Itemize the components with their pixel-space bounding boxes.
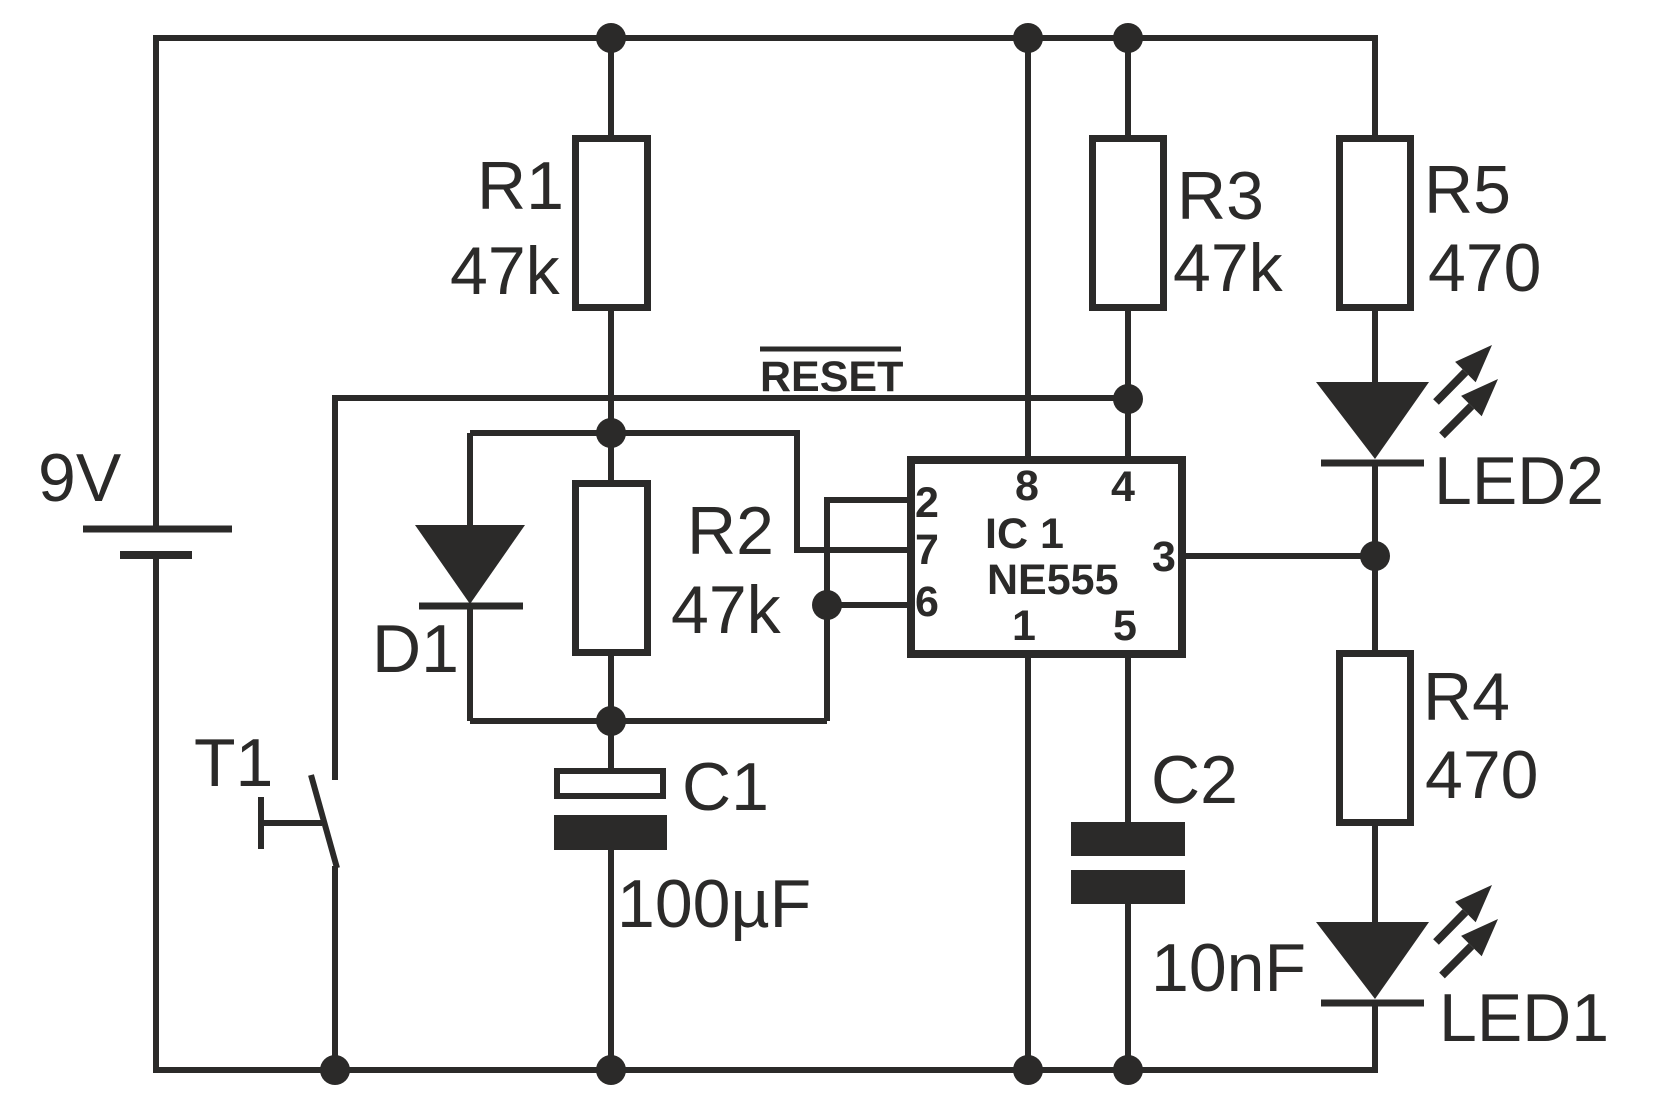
svg-text:T1: T1 bbox=[194, 725, 273, 801]
node pin1 bottom rail junction bbox=[1013, 1055, 1043, 1085]
node top rail R3 junction bbox=[1113, 23, 1143, 53]
svg-text:IC 1: IC 1 bbox=[985, 510, 1064, 558]
LED2 diode triangle bbox=[1316, 382, 1429, 459]
op-amp IC1 NE555 box bbox=[911, 460, 1182, 654]
svg-text:R5: R5 bbox=[1424, 152, 1511, 228]
capacitor C1 positive plate bbox=[557, 771, 663, 796]
node top rail pin8 junction bbox=[1013, 23, 1043, 53]
wire C2 bottom to rail bbox=[1125, 904, 1131, 1070]
capacitor C2 top plate bbox=[1071, 822, 1185, 856]
node pins 2-6 junction bbox=[812, 590, 842, 620]
battery 9V positive plate bbox=[83, 526, 232, 533]
LED1 light arrow 2 bbox=[1442, 919, 1498, 976]
resistor R1 bbox=[576, 139, 648, 308]
wire pin 1 to bottom rail bbox=[1025, 658, 1031, 1070]
svg-text:R4: R4 bbox=[1423, 659, 1510, 735]
wire R1 top bbox=[608, 38, 614, 140]
wire pin 8 from top rail bbox=[1025, 38, 1031, 456]
wire LED2 to pin3 node bbox=[1372, 463, 1378, 556]
node C2 bottom rail junction bbox=[1113, 1055, 1143, 1085]
wire R3 top bbox=[1125, 38, 1131, 140]
capacitor C1 negative plate bbox=[554, 815, 667, 850]
RESET overline bbox=[760, 347, 901, 352]
LED2 light arrow 1 bbox=[1436, 345, 1492, 402]
svg-text:470: 470 bbox=[1428, 230, 1541, 306]
svg-text:2: 2 bbox=[915, 479, 939, 527]
svg-text:R1: R1 bbox=[477, 148, 564, 224]
wire node across to pin7 riser bbox=[470, 433, 910, 550]
LED1 diode triangle bbox=[1316, 922, 1429, 999]
LED2 cathode bar bbox=[1321, 460, 1424, 467]
wire bottom node row D1 to pins 2-6 riser bbox=[470, 718, 827, 724]
wire R2 bottom bbox=[608, 652, 614, 721]
svg-text:100µF: 100µF bbox=[617, 866, 811, 942]
node C1 bottom rail junction bbox=[596, 1055, 626, 1085]
wire C1 top bbox=[608, 721, 614, 770]
svg-text:C1: C1 bbox=[682, 749, 769, 825]
svg-text:LED1: LED1 bbox=[1439, 980, 1609, 1056]
svg-text:R3: R3 bbox=[1177, 158, 1264, 234]
svg-text:1: 1 bbox=[1012, 602, 1036, 650]
svg-text:7: 7 bbox=[915, 526, 939, 574]
wire R2 top bbox=[608, 433, 614, 484]
wire R4 to LED1 bbox=[1372, 822, 1378, 924]
wire node down to D1 anode bbox=[467, 433, 473, 528]
svg-text:47k: 47k bbox=[671, 572, 782, 648]
svg-text:C2: C2 bbox=[1151, 742, 1238, 818]
RESET net wire from T1 up and across to pin 4 bbox=[335, 398, 1128, 780]
resistor R5 bbox=[1340, 139, 1411, 308]
wire R1 bottom to node bbox=[608, 307, 614, 433]
wire top rail from battery + up, across, and down to R5 bbox=[156, 38, 1375, 529]
switch T1 actuator bar bbox=[261, 820, 322, 826]
svg-text:R2: R2 bbox=[687, 493, 774, 569]
wire pin 6 bbox=[827, 602, 910, 608]
svg-text:47k: 47k bbox=[1173, 230, 1284, 306]
D1 cathode bar bbox=[419, 603, 523, 610]
svg-text:D1: D1 bbox=[372, 611, 459, 687]
svg-text:8: 8 bbox=[1015, 462, 1039, 510]
switch T1 lever bbox=[311, 775, 337, 868]
node RESET pin4 junction bbox=[1113, 384, 1143, 414]
svg-text:470: 470 bbox=[1425, 737, 1538, 813]
LED1 cathode bar bbox=[1321, 1000, 1424, 1007]
wire pin 5 to C2 bbox=[1125, 658, 1131, 824]
diode D1 bbox=[415, 525, 525, 604]
resistor R4 bbox=[1340, 654, 1411, 823]
node pin3 LED junction bbox=[1360, 541, 1390, 571]
svg-text:NE555: NE555 bbox=[987, 556, 1118, 604]
node top rail R1 junction bbox=[596, 23, 626, 53]
wire node to R4 bbox=[1372, 556, 1378, 654]
node T1 bottom rail junction bbox=[320, 1055, 350, 1085]
svg-text:RESET: RESET bbox=[760, 353, 903, 401]
node R2/C1 junction bbox=[596, 706, 626, 736]
svg-text:9V: 9V bbox=[38, 440, 122, 516]
svg-text:5: 5 bbox=[1113, 602, 1137, 650]
svg-text:47k: 47k bbox=[450, 233, 561, 309]
wire pin 3 bbox=[1186, 553, 1375, 559]
svg-text:LED2: LED2 bbox=[1434, 443, 1604, 519]
battery 9V negative plate bbox=[120, 551, 192, 559]
switch T1 actuator stem bbox=[258, 797, 264, 849]
resistor R2 bbox=[576, 484, 648, 653]
wire pin 2 and riser to bottom row bbox=[827, 500, 910, 721]
wire R3 bottom to pin 4 bbox=[1125, 307, 1131, 456]
svg-text:3: 3 bbox=[1152, 533, 1176, 581]
LED1 light arrow 1 bbox=[1436, 885, 1492, 942]
wire battery - down, bottom rail across, up to LED1 cathode bbox=[156, 555, 1375, 1070]
wire C1 bottom to rail bbox=[608, 850, 614, 1070]
wire T1 bottom to rail bbox=[332, 866, 338, 1070]
node R1/D1/R2/pin7 junction bbox=[596, 418, 626, 448]
wire R5 bottom to LED2 bbox=[1372, 307, 1378, 386]
LED2 light arrow 2 bbox=[1442, 379, 1498, 436]
resistor R3 bbox=[1093, 139, 1164, 308]
capacitor C2 bottom plate bbox=[1071, 870, 1185, 904]
wire D1 cathode down bbox=[467, 606, 473, 721]
svg-text:6: 6 bbox=[915, 578, 939, 626]
svg-text:4: 4 bbox=[1111, 463, 1135, 511]
svg-text:10nF: 10nF bbox=[1151, 930, 1306, 1006]
